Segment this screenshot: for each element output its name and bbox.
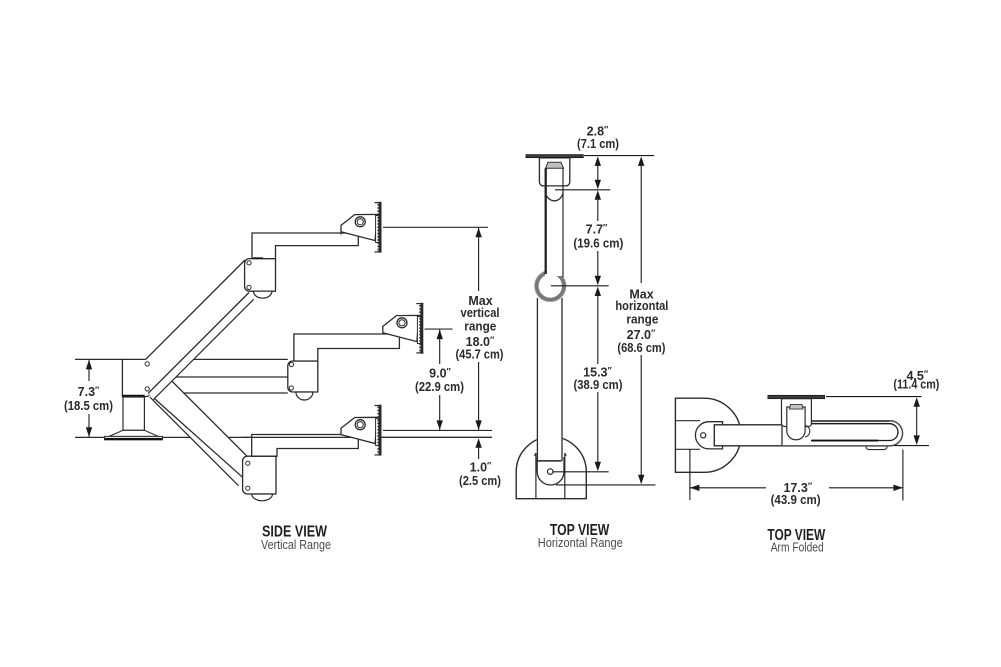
base pivot circle bbox=[547, 469, 553, 475]
upper plate serration bbox=[377, 204, 379, 251]
dim 9in vertical line lower segment bbox=[439, 395, 441, 430]
dim 17.3 extension right bbox=[902, 450, 904, 501]
svg-text:Arm Folded: Arm Folded bbox=[771, 540, 824, 555]
ref line at elbow bbox=[551, 285, 609, 287]
middle monitor plate bbox=[420, 303, 423, 354]
tilter bottom arc bbox=[546, 193, 563, 201]
dim 18in arrow down bbox=[475, 420, 481, 430]
capsule top edge thick bbox=[782, 420, 889, 422]
base flare bbox=[109, 430, 158, 436]
lower head pivot outer bbox=[355, 420, 365, 430]
slot line top bbox=[675, 420, 700, 422]
svg-text:range: range bbox=[626, 312, 658, 326]
lower head wedge bbox=[341, 417, 377, 443]
head inner tube lines bbox=[545, 168, 547, 186]
dim 2.8 arrows bbox=[595, 156, 601, 166]
base foot dark bottom bbox=[105, 438, 162, 440]
middle head wedge bbox=[383, 315, 419, 341]
dim 7.7 bbox=[595, 190, 601, 200]
clamp bracket folded bbox=[695, 422, 722, 449]
middle arm tube bottom edge bbox=[150, 376, 288, 378]
svg-text:(38.9 cm): (38.9 cm) bbox=[574, 378, 623, 392]
upper elbow top tick bbox=[253, 257, 263, 259]
svg-text:Horizontal Range: Horizontal Range bbox=[538, 535, 623, 550]
lower lip under capsule bbox=[866, 441, 887, 450]
upper arm top edge bbox=[146, 260, 245, 359]
upper head pivot inner bbox=[357, 219, 363, 225]
lower arm mid edge bbox=[148, 393, 243, 478]
dim 1in stem bbox=[478, 446, 480, 459]
middle forearm tube (S-step) bbox=[294, 334, 400, 361]
folded monitor plate bbox=[768, 395, 825, 398]
desk reference line (bottom, y=437.4) bbox=[75, 436, 492, 438]
upper arm mid edge bbox=[148, 293, 249, 394]
dim 9in arrow down bbox=[437, 420, 443, 430]
svg-text:vertical: vertical bbox=[461, 306, 500, 320]
dim 4.5 arrows bbox=[914, 397, 920, 407]
capsule inner bottom thick bbox=[811, 440, 878, 442]
base dome bbox=[516, 437, 586, 499]
dim 7.3in arrow down bbox=[86, 427, 92, 437]
middle plate serration bbox=[419, 305, 421, 352]
upper head wedge bbox=[341, 214, 377, 240]
middle head pivot outer bbox=[397, 318, 407, 328]
forearm tube bbox=[545, 168, 564, 276]
upper head pivot outer bbox=[355, 217, 365, 227]
top-of-base reference line (y=359.4) bbox=[75, 358, 122, 360]
middle plate top tick bbox=[416, 303, 423, 305]
middle elbow bottom cap bbox=[296, 392, 313, 400]
ref line 4.5 top bbox=[826, 396, 922, 398]
capsule inner outline bbox=[782, 424, 898, 441]
folded head bracket bbox=[782, 399, 812, 427]
head reference line top position (y=227.3) bbox=[383, 226, 488, 228]
middle arm tube top edge bbox=[150, 358, 288, 360]
dim 18in vertical line lower segment bbox=[478, 362, 480, 430]
middle head hub bbox=[417, 317, 420, 344]
ref line at plate level bbox=[584, 155, 654, 157]
dim 17.3 arrow right bbox=[893, 485, 903, 491]
upper elbow screw bottom bbox=[247, 285, 251, 289]
base divider dark band bbox=[122, 395, 144, 397]
base block screw lower bbox=[145, 387, 149, 391]
folded arm capsule outer bbox=[782, 421, 903, 446]
folded lower bar bbox=[714, 425, 887, 446]
dim 9in vertical line upper segment bbox=[439, 330, 441, 364]
folded head cup bbox=[787, 407, 805, 440]
lower arm wide tube fill bbox=[148, 360, 247, 478]
lower elbow bottom cap bbox=[252, 494, 273, 501]
elbow circle outer line bbox=[535, 270, 566, 301]
upper forearm tube (S-step) bbox=[252, 233, 358, 259]
svg-text:(2.5 cm): (2.5 cm) bbox=[459, 474, 501, 488]
dim 17.3 line right segment bbox=[829, 487, 903, 489]
svg-text:(22.9 cm): (22.9 cm) bbox=[415, 380, 464, 394]
ref line at base rear bbox=[556, 484, 655, 486]
svg-text:Vertical Range: Vertical Range bbox=[261, 537, 331, 552]
clamp bracket walls bbox=[535, 453, 537, 499]
base block bbox=[122, 359, 151, 396]
upper arm wide tube fill bbox=[146, 260, 249, 393]
tube end edge bbox=[538, 460, 562, 462]
dim 18in vertical line upper segment bbox=[478, 228, 480, 291]
ref line 4.5 bottom bbox=[894, 445, 929, 447]
folded head side arc bbox=[805, 426, 810, 438]
lower plate serration bbox=[377, 407, 379, 454]
lower arm narrow link fill bbox=[148, 393, 243, 486]
upper arm bottom edge bbox=[153, 299, 253, 399]
pivot circle folded bbox=[701, 433, 706, 438]
slot line bottom bbox=[675, 448, 700, 450]
folded head tab bbox=[789, 404, 803, 409]
dim 7.3in vertical line upper segment bbox=[88, 360, 90, 381]
middle elbow screw top bbox=[289, 362, 293, 366]
middle arm strut bbox=[145, 392, 288, 394]
upper plate top tick bbox=[375, 202, 382, 204]
ref line at base pivot bbox=[553, 471, 609, 473]
head inner tab bbox=[546, 162, 564, 168]
lower head pivot inner bbox=[357, 422, 363, 428]
head reference line bottom position (y=430.4) bbox=[383, 429, 492, 431]
svg-text:(7.1 cm): (7.1 cm) bbox=[577, 137, 619, 151]
middle plate bottom tick bbox=[416, 352, 423, 354]
base foot plate bbox=[105, 436, 163, 439]
arm end cup bbox=[537, 457, 564, 485]
upper elbow block bbox=[245, 259, 276, 292]
svg-text:(68.6 cm): (68.6 cm) bbox=[617, 341, 665, 355]
lower plate bottom tick bbox=[375, 454, 382, 456]
svg-text:(19.6 cm): (19.6 cm) bbox=[573, 237, 623, 251]
svg-text:(45.7 cm): (45.7 cm) bbox=[456, 348, 504, 362]
monitor plate bar bbox=[526, 155, 583, 158]
dim 7.3in arrow up bbox=[86, 360, 92, 370]
ref line below head (2.8 bottom) bbox=[555, 189, 610, 191]
dim 27.0 max horizontal bbox=[638, 156, 644, 166]
lower monitor plate bbox=[379, 405, 382, 456]
dim 9in arrow up bbox=[437, 330, 443, 340]
dim 1in arrow up bbox=[475, 438, 481, 448]
svg-text:horizontal: horizontal bbox=[615, 299, 668, 313]
lower plate top tick bbox=[375, 405, 382, 407]
svg-text:range: range bbox=[464, 320, 496, 334]
svg-text:(43.9 cm): (43.9 cm) bbox=[771, 493, 821, 507]
upper head hub bbox=[376, 216, 379, 243]
lower elbow block bbox=[243, 456, 276, 494]
elbow circle (gray) bbox=[537, 272, 564, 299]
dim 17.3 extension left bbox=[689, 450, 691, 501]
head bracket bbox=[539, 158, 569, 186]
upper elbow screw top bbox=[247, 261, 251, 265]
upper arm narrow link fill bbox=[148, 293, 253, 400]
upper elbow bottom cap bbox=[254, 291, 272, 298]
dim 7.3in vertical line lower segment bbox=[88, 414, 90, 437]
desk line over tube bbox=[243, 436, 492, 438]
base dome folded bbox=[675, 398, 741, 472]
middle elbow screw bottom bbox=[289, 386, 293, 390]
middle elbow block bbox=[288, 361, 318, 392]
upper monitor plate bbox=[379, 202, 382, 253]
svg-text:(18.5 cm): (18.5 cm) bbox=[64, 399, 113, 413]
dim 18in arrow up bbox=[475, 228, 481, 238]
lower forearm tube (S-step) bbox=[252, 435, 359, 457]
lower head hub bbox=[376, 418, 379, 445]
lower elbow screw bottom bbox=[246, 486, 250, 490]
base block screw upper bbox=[145, 362, 149, 366]
lower arm top edge bbox=[151, 360, 248, 457]
lower arm tube bbox=[537, 300, 563, 460]
head reference line middle position (y=329.1) bbox=[425, 328, 453, 330]
dim 15.3 bbox=[595, 287, 601, 297]
lower arm bottom edge bbox=[150, 397, 239, 486]
dim 17.3 line left segment bbox=[690, 487, 766, 489]
upper plate bottom tick bbox=[375, 251, 382, 253]
lower elbow screw top bbox=[246, 461, 250, 465]
dim 17.3 arrow left bbox=[690, 485, 700, 491]
base column bbox=[123, 397, 144, 430]
svg-text:(11.4 cm): (11.4 cm) bbox=[893, 378, 939, 392]
middle head pivot inner bbox=[399, 320, 405, 326]
upper head wedge lower edge bbox=[340, 232, 342, 235]
